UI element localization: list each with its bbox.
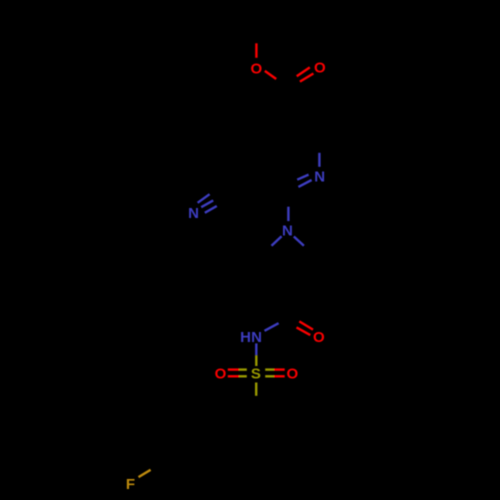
svg-text:O: O — [286, 366, 298, 383]
svg-text:N: N — [188, 205, 199, 222]
svg-text:N: N — [314, 169, 325, 186]
svg-text:F: F — [126, 476, 135, 493]
svg-text:H: H — [240, 329, 251, 346]
svg-text:O: O — [250, 60, 262, 77]
svg-text:O: O — [215, 365, 227, 382]
svg-text:N: N — [251, 329, 262, 346]
svg-text:N: N — [282, 223, 293, 240]
svg-text:O: O — [314, 59, 326, 76]
svg-text:S: S — [251, 366, 261, 383]
svg-text:O: O — [313, 329, 325, 346]
